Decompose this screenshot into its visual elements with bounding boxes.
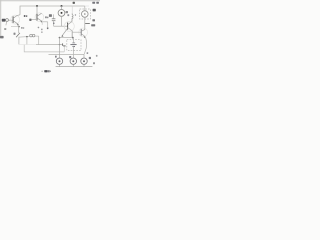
jack stubs to bus bbox=[59, 64, 61, 66]
jack 1 bbox=[56, 58, 62, 64]
emitter resistor arrow bbox=[16, 33, 20, 37]
battery cell plates bbox=[72, 42, 75, 44]
specks below T2 bbox=[41, 29, 42, 31]
rail B end rise bbox=[63, 47, 65, 52]
label specks right of node bbox=[21, 27, 22, 29]
T1 label specks bbox=[24, 15, 26, 17]
wire to bottom rail A bbox=[18, 37, 20, 45]
T4 base bar bbox=[80, 29, 82, 36]
rail B with left corner bbox=[24, 45, 64, 52]
rail C bbox=[49, 53, 85, 55]
input terminal symbol bbox=[6, 19, 9, 22]
T2 collector drop from rail bbox=[36, 6, 38, 14]
T2 label specks bbox=[45, 16, 47, 18]
coupling capacitor C bbox=[53, 14, 55, 18]
meter center dot bbox=[61, 12, 63, 14]
jack 2 bbox=[70, 58, 76, 64]
vertical x27 bbox=[26, 37, 28, 45]
jack3 label bbox=[89, 57, 91, 59]
transistor T2 circle bbox=[35, 13, 44, 22]
output dashed box bbox=[80, 9, 91, 19]
coupling component two circles bbox=[30, 34, 33, 37]
jack 3 bbox=[81, 58, 87, 64]
T2 upper slant bbox=[37, 13, 42, 16]
jack 1 lead bbox=[59, 38, 61, 58]
T3 emitter right branch bbox=[68, 28, 73, 31]
transistor T3 circle bbox=[64, 21, 74, 31]
T2 base lead bbox=[32, 19, 37, 21]
T1 base bar bbox=[12, 16, 14, 23]
frame left border bbox=[0, 0, 2, 38]
T3 emitter with arrow bbox=[62, 28, 68, 36]
meter M circle bbox=[58, 10, 65, 17]
wire input to T1 base bbox=[8, 19, 13, 21]
T1 emitter wire with arrow bbox=[13, 21, 18, 25]
jack1 label bbox=[55, 56, 57, 58]
speck below capacitor bbox=[53, 23, 55, 25]
wire T2 emitter right bbox=[42, 21, 48, 23]
node dot mid wire bbox=[26, 36, 28, 38]
meter lower lead bbox=[61, 16, 63, 26]
T1 collector wire bbox=[13, 15, 20, 18]
annotation labels bbox=[92, 19, 95, 21]
wire emitter node to battery bbox=[60, 37, 74, 39]
T4 emitter wire curve to rail bbox=[84, 37, 86, 54]
jack 3 lead bbox=[83, 54, 85, 58]
battery feed drop into box bbox=[72, 38, 74, 43]
emitter node dot bbox=[59, 37, 61, 39]
T3 base bar bbox=[67, 23, 69, 30]
annotation dash bbox=[85, 23, 90, 25]
transistor T1 circle bbox=[11, 15, 20, 24]
T3 collector area speck bbox=[67, 14, 69, 16]
bottom rail A bbox=[36, 44, 63, 46]
input terminal label bbox=[2, 19, 6, 22]
frame top border bbox=[0, 0, 100, 2]
T3 collector coil squiggle bbox=[72, 13, 73, 21]
speck above arc bbox=[87, 52, 89, 54]
resistor label bbox=[14, 33, 16, 35]
caption Abb. 1 bbox=[42, 71, 43, 72]
T4 emitter with arrow bbox=[81, 34, 85, 37]
drop to node bbox=[47, 22, 49, 27]
T2 emitter wire with arrow bbox=[37, 18, 42, 21]
wire cap/meter to T3 base bbox=[54, 25, 68, 27]
meter label mA bbox=[66, 11, 68, 13]
drop from mid wire to rail A bbox=[38, 36, 40, 45]
battery dashed box bbox=[67, 40, 81, 51]
capacitor label bbox=[49, 14, 52, 17]
cropped margin text left edge bbox=[0, 36, 4, 39]
T2 emitter drop bbox=[41, 21, 43, 24]
T4 base wire bbox=[72, 31, 81, 33]
bias wire to emitter node bbox=[11, 26, 19, 28]
mid wire left section bbox=[19, 35, 30, 38]
T2 base label bbox=[29, 19, 31, 21]
T2 base bar bbox=[36, 14, 38, 21]
earphone bottom lead bbox=[84, 17, 86, 23]
rail B terminal dash bbox=[63, 45, 66, 47]
earphone circle bbox=[82, 11, 89, 18]
earphone top lead bbox=[84, 6, 86, 11]
transistor T4 circle bbox=[79, 28, 88, 37]
battery lower lead bbox=[72, 46, 74, 58]
cropped page text top right bbox=[92, 2, 95, 4]
node dot jack lead / rail A bbox=[59, 44, 60, 45]
T4 collector wire bbox=[81, 24, 85, 32]
node dot rail/T2 bbox=[36, 5, 38, 7]
bottom bus under jacks bbox=[56, 66, 93, 68]
bottom rail A faint left part bbox=[19, 44, 36, 46]
T3 collector slant bbox=[68, 22, 72, 25]
label Ra bbox=[93, 9, 96, 12]
meter lead from rail bbox=[61, 6, 63, 10]
node dot rail/meter bbox=[61, 5, 63, 7]
rail A end tick bbox=[62, 43, 64, 45]
T1 emitter drop wire bbox=[18, 24, 20, 33]
jack2 label bbox=[69, 56, 71, 58]
junction blob battery drop bbox=[72, 37, 74, 39]
node label a above rail bbox=[73, 2, 75, 4]
node dot emitter wire bbox=[18, 26, 20, 28]
top supply rail bbox=[20, 6, 85, 15]
